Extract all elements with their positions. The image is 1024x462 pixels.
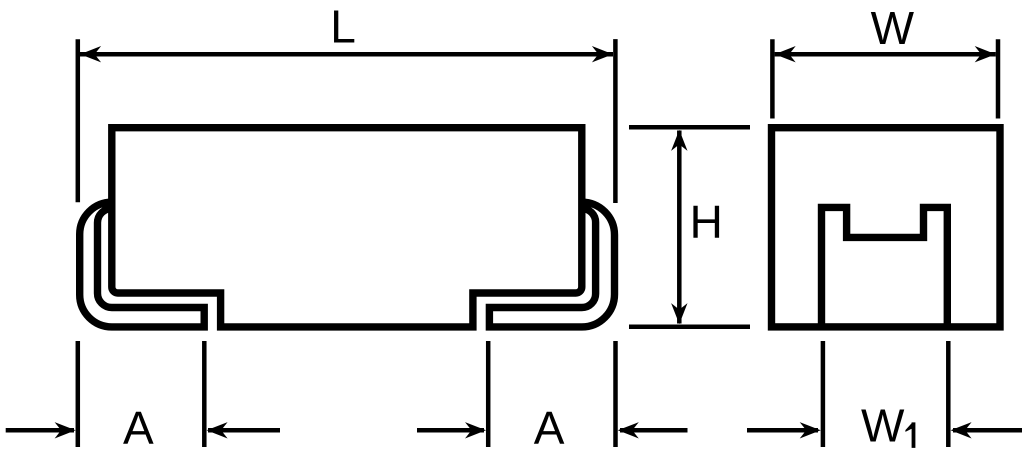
dimension W1: right extension line [946, 341, 951, 447]
capacitor body outline (side view) [112, 128, 582, 327]
dimension A left: leader line from left [6, 428, 74, 433]
dimension A right: leader line from right [620, 428, 688, 433]
arrowhead L left [80, 46, 101, 62]
svg-text:A: A [123, 402, 154, 454]
dimension L: left extension line [76, 39, 81, 202]
dimension L: dimension line [80, 52, 613, 57]
dimension L: right extension line [613, 39, 618, 203]
arrowhead W1, pointing left [951, 422, 972, 438]
arrowhead L right [592, 46, 613, 62]
left J-lead terminal (side view) [80, 202, 205, 327]
arrowhead A right, pointing right [465, 422, 486, 438]
dimension W: dimension line [775, 52, 996, 57]
arrowhead H up [671, 130, 687, 151]
dimension A right: leader line from left [417, 428, 484, 433]
dimension A right: left extension line [486, 341, 491, 447]
dimension A right: right extension line [613, 341, 618, 447]
dimension H: bottom extension line [629, 325, 750, 330]
svg-text:L: L [330, 1, 356, 53]
terminal profile (end view) [822, 207, 948, 327]
dimension W1: left extension line [821, 341, 826, 447]
svg-text:H: H [690, 196, 723, 248]
arrowhead W right [975, 46, 996, 62]
dimension A left: leader line from right [208, 428, 280, 433]
svg-text:A: A [534, 402, 565, 454]
svg-text:W: W [871, 2, 915, 54]
dimension H: top extension line [629, 125, 750, 130]
arrowhead H down [671, 303, 687, 324]
dimension W1: leader line from left [747, 428, 818, 433]
arrowhead A right, pointing left [618, 422, 639, 438]
arrowhead W1, pointing right [800, 422, 821, 438]
svg-text:W: W [861, 399, 905, 451]
dimension A left: left extension line [76, 341, 81, 447]
dimension H: dimension line [677, 131, 682, 324]
dimension W: right extension line [996, 39, 1001, 118]
right J-lead terminal (side view) [489, 202, 614, 327]
dimension A left: right extension line [202, 341, 207, 447]
arrowhead A left, pointing right [55, 422, 76, 438]
arrowhead A left, pointing left [207, 422, 228, 438]
dimension W: left extension line [770, 39, 775, 118]
arrowhead W left [775, 46, 796, 62]
dimension W1: leader line from right [953, 428, 1022, 433]
capacitor body outline (end view) [772, 128, 1001, 327]
